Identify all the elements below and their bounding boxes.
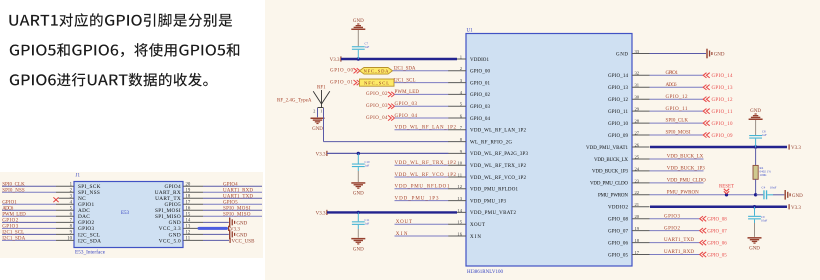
svg-text:GND: GND bbox=[312, 127, 323, 132]
svg-text:GND: GND bbox=[714, 53, 725, 58]
svg-text:PWM_LED: PWM_LED bbox=[2, 213, 26, 218]
svg-text:UART1_RXD: UART1_RXD bbox=[223, 188, 253, 193]
net label UART1_TXD bbox=[223, 194, 253, 199]
port GPIO_07 bbox=[700, 228, 728, 234]
wire antenna pin2 to GND bbox=[317, 108, 319, 117]
svg-text:GPIO_12: GPIO_12 bbox=[666, 95, 689, 100]
svg-text:18: 18 bbox=[186, 194, 191, 199]
svg-text:VCC_USB: VCC_USB bbox=[232, 240, 256, 245]
port GPIO_05 bbox=[700, 252, 728, 258]
wire I2C1_SDA bbox=[393, 70, 449, 72]
svg-text:UART1_TXD: UART1_TXD bbox=[664, 238, 694, 243]
svg-text:11: 11 bbox=[458, 172, 463, 177]
svg-text:VDD_PMU_VBAT1: VDD_PMU_VBAT1 bbox=[586, 146, 629, 151]
U1 pin 28 GPIO_10 bbox=[608, 119, 650, 127]
net label ADC6 bbox=[666, 83, 678, 88]
NFC_SDA tag bbox=[360, 68, 393, 75]
J1 pin 3 NC bbox=[59, 194, 87, 202]
svg-text:GPIO_02: GPIO_02 bbox=[470, 93, 491, 98]
net label GPIO_01 bbox=[330, 80, 354, 85]
J1 pin 12 GND bbox=[169, 231, 203, 239]
svg-text:VDD_PMU_VBAT2: VDD_PMU_VBAT2 bbox=[470, 211, 517, 216]
C9 value label bbox=[761, 215, 768, 223]
svg-text:GPIO_11: GPIO_11 bbox=[666, 107, 689, 112]
svg-text:SPI0_MISO: SPI0_MISO bbox=[223, 213, 251, 218]
svg-text:10: 10 bbox=[457, 161, 462, 166]
port GPIO_06 bbox=[700, 240, 728, 246]
svg-text:I2C1_SCL: I2C1_SCL bbox=[394, 78, 416, 83]
svg-text:VDD_WL_RF_TRX_1P2: VDD_WL_RF_TRX_1P2 bbox=[395, 161, 457, 166]
capacitor C7 lead bbox=[357, 30, 359, 46]
svg-text:GPIO_09: GPIO_09 bbox=[608, 134, 629, 139]
svg-text:GPIO_12: GPIO_12 bbox=[608, 98, 629, 103]
wire VDDIO2 rail bbox=[650, 205, 787, 208]
svg-text:2: 2 bbox=[313, 109, 315, 114]
capacitor C8 lead bbox=[755, 120, 757, 135]
net label I2C1_SCL bbox=[2, 231, 24, 236]
net label SPI0_NSS bbox=[2, 188, 25, 193]
U1 pin 32 GPIO_14 bbox=[608, 71, 650, 79]
svg-text:VDD_PMU_RFLDO1: VDD_PMU_RFLDO1 bbox=[395, 185, 451, 190]
svg-text:GPIO_04: GPIO_04 bbox=[470, 117, 491, 122]
net label UART1_RXD bbox=[664, 250, 694, 255]
wire J1 pin14 to GND bbox=[203, 221, 229, 223]
J1 pin 15 SPI_MISO bbox=[155, 213, 203, 221]
power V3.3 (J1 pin 13) bbox=[228, 226, 240, 233]
svg-text:18: 18 bbox=[635, 238, 640, 243]
svg-text:GND: GND bbox=[236, 234, 247, 239]
U1 pin 33 GND bbox=[616, 49, 650, 57]
net label VDD_BUCK_LX bbox=[667, 155, 704, 160]
svg-text:VDD_BUCK_LX: VDD_BUCK_LX bbox=[594, 158, 628, 163]
wire GPIO5 bbox=[203, 203, 262, 205]
power GND (antenna) bbox=[311, 118, 325, 132]
net label SPI0_CLK bbox=[2, 182, 25, 187]
IC U1 body bbox=[466, 29, 632, 267]
svg-text:14: 14 bbox=[457, 208, 462, 213]
net label UART1_TXD bbox=[664, 238, 694, 243]
net label GPIO_12 bbox=[666, 95, 689, 100]
svg-text:GPIO_09: GPIO_09 bbox=[712, 134, 734, 139]
svg-text:1uF: 1uF bbox=[762, 133, 767, 137]
net label GPIO1 bbox=[2, 200, 17, 205]
svg-text:XIN: XIN bbox=[470, 235, 481, 240]
net label GPIO4 bbox=[223, 182, 238, 187]
svg-text:33: 33 bbox=[635, 49, 640, 54]
U1 pin 17 GPIO_05 bbox=[608, 250, 650, 258]
svg-text:SPI0_MOSI: SPI0_MOSI bbox=[666, 131, 691, 136]
net label SPI0_MISO bbox=[223, 213, 251, 218]
svg-text:VDD_PMU_1P3: VDD_PMU_1P3 bbox=[395, 196, 440, 201]
svg-text:I2C_SDA: I2C_SDA bbox=[78, 238, 101, 244]
C4 value label bbox=[762, 185, 777, 189]
svg-text:14: 14 bbox=[186, 219, 191, 224]
svg-text:GPIO1: GPIO1 bbox=[2, 200, 17, 205]
net label GPIO_02 bbox=[366, 92, 388, 97]
net label PMU_PWRON bbox=[667, 190, 699, 195]
net label SPI0_CLK bbox=[666, 119, 689, 124]
U1 pin 7 VDD_WL_RF_LAN_1P2 bbox=[448, 125, 527, 133]
svg-text:VDD_BUCK_1P3: VDD_BUCK_1P3 bbox=[592, 170, 629, 175]
svg-text:23: 23 bbox=[635, 178, 640, 183]
svg-text:UART1_RXD: UART1_RXD bbox=[664, 250, 694, 255]
svg-text:GPIO_11: GPIO_11 bbox=[608, 110, 629, 115]
U1 pin 8 WL_RF_RFIO_2G bbox=[448, 137, 512, 145]
C9 ground lead bbox=[754, 223, 756, 237]
net label SPI0_MOSI bbox=[223, 206, 251, 211]
J1 pin 7 GPIO2 bbox=[2, 219, 95, 227]
svg-text:GPIO_03: GPIO_03 bbox=[395, 102, 418, 107]
net label VDD_BUCK_1P3 bbox=[667, 167, 706, 172]
svg-text:GPIO_08: GPIO_08 bbox=[608, 218, 629, 223]
svg-text:GND: GND bbox=[749, 247, 760, 252]
U1 pin 22 PMU_PWRON bbox=[598, 190, 650, 198]
wire VDD_PMU_RFLDO1 bbox=[395, 188, 449, 190]
wire U1 pin33 to GND bbox=[650, 53, 707, 55]
net label XOUT bbox=[396, 220, 412, 225]
port GPIO_08 bbox=[700, 216, 728, 222]
J1 pin 11 VCC_5.0 bbox=[159, 237, 203, 245]
C11 ground lead bbox=[357, 229, 359, 238]
J1 pin 19 UART_RX bbox=[155, 188, 203, 196]
power GND (C11) bbox=[351, 238, 365, 252]
wire ADC6 bbox=[650, 86, 704, 88]
svg-text:GND: GND bbox=[236, 222, 247, 227]
wire VDD_PMU_CLDO bbox=[650, 182, 704, 184]
svg-text:C4: C4 bbox=[762, 185, 766, 189]
svg-text:VDD_WL_RF_LAN_1P2: VDD_WL_RF_LAN_1P2 bbox=[395, 126, 457, 131]
wire GPIO_11 bbox=[650, 110, 704, 112]
wire VDD_WL_RF_TRX_1P2 bbox=[395, 164, 449, 166]
svg-text:GPIO2: GPIO2 bbox=[2, 219, 19, 224]
svg-text:VDD_PMU_CLDO: VDD_PMU_CLDO bbox=[667, 178, 706, 183]
svg-text:19: 19 bbox=[186, 188, 191, 193]
net label SPI0_MOSI bbox=[666, 131, 691, 136]
U1 pin 9 VDD_WL_RF_PA2G_3P3 bbox=[448, 149, 529, 157]
svg-text:1uF: 1uF bbox=[365, 45, 370, 49]
wire VDD_PMU_VBAT1 rail bbox=[650, 145, 787, 148]
wire SPI0_MOSI bbox=[650, 134, 704, 136]
wire PWM_LED bbox=[395, 93, 449, 95]
svg-text:GPIO_03: GPIO_03 bbox=[366, 104, 388, 109]
svg-text:GPIO_03: GPIO_03 bbox=[470, 105, 491, 110]
net label GPIO_11 bbox=[666, 107, 689, 112]
svg-text:29: 29 bbox=[635, 107, 640, 112]
power V3.3 (U1 pin 9) bbox=[316, 151, 328, 158]
wire VDD_WL_RF_VCO_1P2 bbox=[395, 176, 449, 178]
svg-text:VDD_PMU_1P3: VDD_PMU_1P3 bbox=[470, 199, 507, 204]
net label GPIO_03 bbox=[366, 104, 388, 109]
svg-text:21: 21 bbox=[635, 202, 640, 207]
power GND (C9) bbox=[748, 237, 762, 251]
svg-text:GPIO_12: GPIO_12 bbox=[712, 98, 734, 103]
net label I2C1_SDA bbox=[394, 67, 416, 72]
svg-text:GPIO_07: GPIO_07 bbox=[707, 229, 727, 234]
svg-text:GPIO4: GPIO4 bbox=[223, 182, 238, 187]
svg-text:12: 12 bbox=[186, 231, 191, 236]
svg-text:20: 20 bbox=[635, 214, 640, 219]
net label UART1_RXD bbox=[223, 188, 253, 193]
J1 pin 6 DAC bbox=[2, 213, 90, 221]
svg-text:GPIO_10: GPIO_10 bbox=[712, 122, 734, 127]
svg-text:J1: J1 bbox=[76, 174, 81, 179]
svg-text:E53: E53 bbox=[121, 211, 130, 216]
U1 pin 27 GPIO_09 bbox=[608, 130, 650, 138]
svg-text:GPIO3: GPIO3 bbox=[664, 214, 681, 219]
svg-text:RESET: RESET bbox=[719, 185, 734, 190]
wire UART1_TXD bbox=[203, 197, 262, 199]
J1 pin 1 SPI_SCK bbox=[2, 182, 101, 190]
net label GPIO1 bbox=[666, 71, 679, 76]
capacitor C7 bbox=[352, 46, 365, 59]
wire antenna pin1 to WL_RF_RFIO_2G bbox=[324, 108, 449, 142]
net label VDD_WL_RF_LAN_1P2 bbox=[395, 126, 457, 131]
wire GPIO1 bbox=[650, 74, 704, 76]
svg-text:GPIO_13: GPIO_13 bbox=[712, 86, 734, 91]
net label RF_2.4G_TypeA bbox=[277, 99, 312, 104]
svg-text:GPIO_05: GPIO_05 bbox=[707, 253, 727, 258]
port GPIO_14 bbox=[703, 73, 733, 79]
wire rail to resistor bbox=[755, 147, 757, 165]
svg-text:XOUT: XOUT bbox=[396, 220, 412, 225]
svg-text:28: 28 bbox=[635, 119, 640, 124]
svg-text:V3.3: V3.3 bbox=[791, 146, 801, 151]
svg-text:GPIO_05: GPIO_05 bbox=[608, 253, 629, 258]
svg-text:17: 17 bbox=[186, 200, 191, 205]
power GND (U1 pin 33) bbox=[706, 49, 725, 59]
svg-text:GND: GND bbox=[353, 19, 364, 24]
svg-text:GPIO_06: GPIO_06 bbox=[707, 241, 727, 246]
svg-text:13: 13 bbox=[457, 196, 462, 201]
U1 pin 10 VDD_WL_RF_TRX_1P2 bbox=[448, 161, 527, 169]
svg-text:15: 15 bbox=[457, 220, 462, 225]
J1 pin 2 SPI_NSS bbox=[2, 188, 100, 196]
power GND (J1 pin 14) bbox=[229, 218, 248, 228]
svg-text:GND: GND bbox=[792, 194, 803, 199]
net label XIN bbox=[396, 232, 408, 237]
svg-text:GPIO_04: GPIO_04 bbox=[366, 116, 388, 121]
C11 value label bbox=[365, 218, 370, 226]
port GPIO_02 chevrons bbox=[388, 92, 395, 97]
svg-text:GPIO_01: GPIO_01 bbox=[330, 80, 354, 85]
power V3.3 (U1 pin 21) bbox=[789, 204, 802, 211]
J1 pin 14 GND bbox=[169, 219, 203, 227]
svg-text:GPIO_04: GPIO_04 bbox=[395, 114, 418, 119]
capacitor C8 bbox=[749, 135, 762, 147]
svg-text:26: 26 bbox=[635, 142, 640, 147]
wire VDD_BUCK_1P3 bbox=[650, 170, 704, 172]
wire VCC_3.3 to V3.3 (highlighted) bbox=[199, 227, 227, 230]
svg-text:GND: GND bbox=[616, 52, 628, 57]
svg-text:SPI0_CLK: SPI0_CLK bbox=[2, 182, 25, 187]
U1 pin 21 VDDIO2 bbox=[608, 202, 650, 210]
svg-text:NFC_SCL: NFC_SCL bbox=[364, 80, 389, 85]
net label VDD_PMU_RFLDO1 bbox=[395, 185, 451, 190]
svg-text:GPIO_13: GPIO_13 bbox=[608, 86, 629, 91]
schematic sheet background (right screenshot) bbox=[265, 0, 820, 280]
svg-text:100K: 100K bbox=[760, 173, 768, 177]
port GPIO_04 chevrons bbox=[388, 115, 395, 120]
wire I2C1_SCL bbox=[394, 82, 448, 84]
svg-text:17: 17 bbox=[635, 250, 640, 255]
wire SPI0_CLK bbox=[650, 122, 704, 124]
svg-text:VDD_BUCK_LX: VDD_BUCK_LX bbox=[667, 155, 704, 160]
wire J1 pin12 to GND bbox=[203, 233, 229, 235]
antenna RF1 bbox=[313, 86, 330, 114]
wire V3.3 rail to VDDIO1 bbox=[341, 57, 457, 60]
J1 pin 8 GPIO3 bbox=[2, 225, 95, 233]
port GPIO_03 chevrons bbox=[388, 104, 395, 109]
svg-text:10uF: 10uF bbox=[761, 219, 768, 223]
C10 ground lead bbox=[357, 171, 359, 182]
svg-text:GND: GND bbox=[353, 192, 364, 197]
svg-text:V3.3: V3.3 bbox=[230, 228, 240, 233]
svg-text:SPI0_CLK: SPI0_CLK bbox=[666, 119, 689, 124]
svg-text:31: 31 bbox=[635, 83, 640, 88]
wire UART1_TXD bbox=[650, 242, 700, 244]
wire VDD_WL_RF_LAN_1P2 bbox=[395, 129, 449, 131]
svg-text:V3.3: V3.3 bbox=[316, 211, 326, 216]
wire GPIO_04 bbox=[395, 117, 449, 119]
C8 value label bbox=[762, 130, 767, 138]
wire UART1_RXD bbox=[203, 191, 262, 193]
U1 pin 19 GPIO_07 bbox=[608, 226, 650, 234]
svg-text:1uF: 1uF bbox=[365, 164, 370, 168]
svg-text:24: 24 bbox=[635, 166, 640, 171]
svg-text:U1: U1 bbox=[467, 29, 474, 34]
wire V3.3 to VDD_WL_RF_PA2G_3P3 bbox=[327, 152, 448, 155]
svg-text:VDDIO2: VDDIO2 bbox=[608, 206, 629, 211]
svg-text:GPIO_07: GPIO_07 bbox=[608, 229, 629, 234]
svg-text:VDD_PMU_CLDO: VDD_PMU_CLDO bbox=[590, 182, 628, 187]
port GPIO_13 bbox=[703, 85, 733, 91]
wire V3.3 rail to VDD_PMU_VBAT2 bbox=[327, 211, 457, 214]
capacitor C11 bbox=[352, 212, 365, 229]
svg-text:VDD_WL_RF_TRX_1P2: VDD_WL_RF_TRX_1P2 bbox=[470, 164, 527, 169]
svg-text:16: 16 bbox=[186, 206, 191, 211]
power VCC_USB bbox=[230, 238, 256, 245]
net label GPIO_04 bbox=[395, 114, 418, 119]
svg-text:1uF: 1uF bbox=[365, 221, 370, 225]
J1 pin 5 ADC bbox=[2, 206, 90, 214]
svg-text:E53_Interface: E53_Interface bbox=[75, 249, 106, 256]
wire UART1_RXD bbox=[650, 254, 700, 256]
port GPIO_09 bbox=[703, 132, 733, 138]
svg-text:GPIO2: GPIO2 bbox=[664, 226, 681, 231]
svg-text:NFC_SDA: NFC_SDA bbox=[364, 69, 390, 74]
wire GPIO3 bbox=[650, 218, 700, 220]
svg-text:GPIO_08: GPIO_08 bbox=[707, 218, 727, 223]
U1 pin 15 XOUT bbox=[448, 220, 485, 228]
svg-text:PMU_PWRON: PMU_PWRON bbox=[667, 190, 699, 195]
svg-text:I2C1_SDA: I2C1_SDA bbox=[394, 67, 416, 72]
net label GPIO2 bbox=[664, 226, 681, 231]
wire J1 pin11 to VCC_USB bbox=[203, 239, 229, 241]
svg-text:GPIO_00: GPIO_00 bbox=[330, 69, 354, 74]
U1 pin 4 GPIO_02 bbox=[448, 90, 491, 98]
NFC_SCL tag bbox=[360, 79, 395, 86]
no-connect X on J1 pin 3 bbox=[53, 197, 58, 202]
port GPIO_11 bbox=[703, 109, 733, 115]
power GND above C8 bbox=[749, 109, 763, 120]
wire XOUT bbox=[395, 223, 449, 225]
svg-text:RF1: RF1 bbox=[317, 86, 326, 91]
power GND above C7 bbox=[351, 19, 365, 30]
svg-text:20: 20 bbox=[186, 182, 191, 187]
port GPIO_12 bbox=[703, 97, 733, 103]
U1 pin 25 VDD_BUCK_LX bbox=[594, 154, 650, 162]
net label GPIO_00 bbox=[330, 69, 354, 74]
svg-text:VDD_WL_RF_PA2G_3P3: VDD_WL_RF_PA2G_3P3 bbox=[470, 152, 529, 157]
svg-text:VDD_BUCK_1P3: VDD_BUCK_1P3 bbox=[667, 167, 706, 172]
svg-text:22: 22 bbox=[635, 190, 640, 195]
svg-text:10: 10 bbox=[67, 237, 72, 242]
U1 pin 29 GPIO_11 bbox=[608, 107, 650, 115]
svg-text:27: 27 bbox=[635, 130, 640, 135]
U1 pin 1 VDDIO1 bbox=[448, 54, 490, 62]
svg-text:ADC6: ADC6 bbox=[666, 83, 678, 88]
U1 pin 23 VDD_PMU_CLDO bbox=[590, 178, 650, 186]
wire VDD_PMU_1P3 bbox=[395, 200, 449, 202]
svg-text:GND: GND bbox=[750, 109, 761, 114]
U1 pin 14 VDD_PMU_VBAT2 bbox=[448, 208, 517, 216]
svg-text:GPIO_01: GPIO_01 bbox=[470, 81, 491, 86]
U1 pin 3 GPIO_01 bbox=[448, 78, 491, 86]
capacitor C4 bbox=[756, 190, 784, 199]
svg-text:GPIO_02: GPIO_02 bbox=[366, 92, 388, 97]
wire GPIO2 bbox=[650, 230, 700, 232]
wire GPIO_03 bbox=[395, 105, 449, 107]
designator E53_Interface bbox=[75, 249, 106, 256]
net label VDD_WL_RF_VCO_1P2 bbox=[395, 173, 457, 178]
svg-text:PWM_LED: PWM_LED bbox=[395, 90, 420, 95]
U1 pin 11 VDD_WL_RF_VCO_1P2 bbox=[448, 172, 527, 180]
U1 pin 30 GPIO_12 bbox=[608, 95, 650, 103]
paragraph text line 2 bbox=[10, 43, 239, 57]
paragraph text line 1 bbox=[9, 13, 232, 27]
net label I2C1_SDA bbox=[2, 237, 25, 242]
svg-text:15: 15 bbox=[186, 213, 191, 218]
power GND (C10) bbox=[351, 182, 365, 196]
U1 pin 18 GPIO_06 bbox=[608, 238, 650, 246]
J1 pin 16 SPI_MOSI bbox=[155, 206, 203, 214]
svg-text:VDD_WL_RF_VCO_1P2: VDD_WL_RF_VCO_1P2 bbox=[470, 176, 527, 181]
resistor R4 bbox=[753, 165, 771, 179]
J1 pin 18 UART_TX bbox=[155, 194, 203, 202]
svg-text:SPI0_MOSI: SPI0_MOSI bbox=[223, 206, 251, 211]
svg-text:25: 25 bbox=[635, 154, 640, 159]
wire SPI0_MISO bbox=[203, 215, 262, 217]
net label ADC6 bbox=[2, 206, 14, 211]
svg-text:PMU_PWRON: PMU_PWRON bbox=[598, 194, 628, 199]
wire GPIO_12 bbox=[650, 98, 704, 100]
svg-text:XIN: XIN bbox=[396, 232, 408, 237]
svg-text:V3.3: V3.3 bbox=[791, 206, 801, 211]
net label GPIO_03 bbox=[395, 102, 418, 107]
U1 pin 5 GPIO_03 bbox=[448, 102, 491, 110]
svg-text:WL_RF_RFIO_2G: WL_RF_RFIO_2G bbox=[470, 140, 512, 145]
wire XIN bbox=[395, 235, 449, 237]
RESET marker bbox=[719, 185, 734, 194]
svg-text:SPI0_NSS: SPI0_NSS bbox=[2, 188, 25, 193]
net label PWM_LED bbox=[395, 90, 420, 95]
svg-text:I2C1_SCL: I2C1_SCL bbox=[2, 231, 24, 236]
power GND (J1 pin 12) bbox=[229, 230, 248, 240]
svg-text:VDDIO1: VDDIO1 bbox=[470, 58, 490, 63]
C7 value label bbox=[365, 42, 370, 50]
svg-text:1: 1 bbox=[320, 109, 322, 114]
svg-text:13: 13 bbox=[186, 225, 191, 230]
